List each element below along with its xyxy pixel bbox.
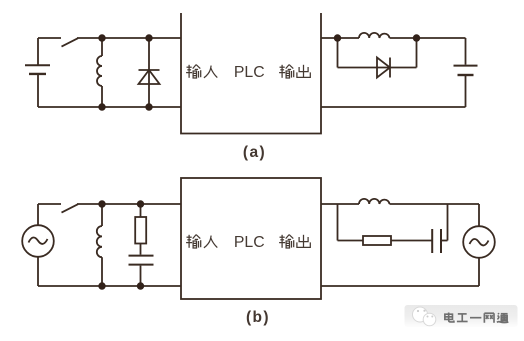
- svg-text:PLC: PLC: [234, 234, 265, 251]
- svg-text:(a): (a): [243, 144, 266, 161]
- svg-text:PLC: PLC: [234, 64, 265, 81]
- svg-text:(b): (b): [246, 309, 270, 326]
